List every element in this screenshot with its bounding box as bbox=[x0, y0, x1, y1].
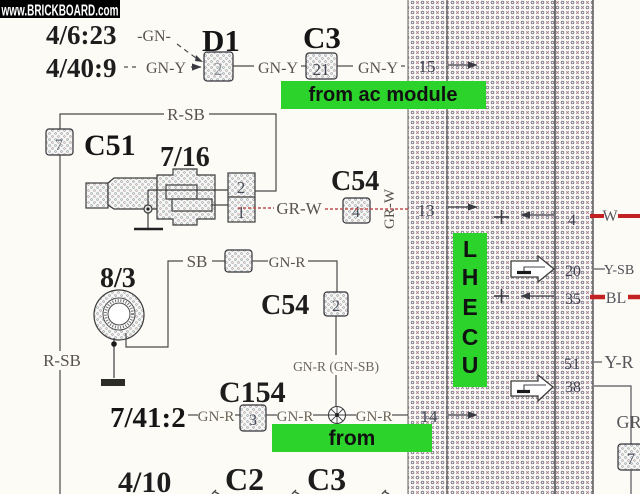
wire GN-Y dashed from 4/40:9 bbox=[124, 60, 201, 77]
svg-text:GN-R: GN-R bbox=[356, 409, 393, 425]
svg-text:7: 7 bbox=[55, 137, 63, 154]
wire GN dashed from 4/6:23 bbox=[137, 28, 203, 62]
connector C3 bbox=[306, 53, 337, 79]
wire W output bbox=[590, 208, 640, 225]
svg-text:L: L bbox=[463, 236, 477, 262]
svg-text:4/40:9: 4/40:9 bbox=[46, 53, 117, 83]
valve 7/16 body bbox=[86, 169, 228, 225]
svg-text:21: 21 bbox=[313, 60, 330, 79]
svg-text:U: U bbox=[462, 352, 479, 378]
pin block of 7/16 pins 2,1 bbox=[228, 173, 255, 222]
wire GR-W from pin 1 bbox=[238, 199, 323, 218]
arrow left row35 bbox=[521, 295, 554, 297]
wire GN-R (GN-SB) down bbox=[293, 316, 379, 407]
connector GR bottom right bbox=[618, 444, 640, 470]
svg-text:C3: C3 bbox=[307, 461, 346, 494]
svg-text:C51: C51 bbox=[84, 129, 136, 162]
wire GN-R splice to ECU bbox=[346, 409, 408, 425]
wire Y-SB output bbox=[594, 263, 634, 278]
pin 15 bbox=[419, 57, 478, 76]
connector C54 pin 4 bbox=[343, 198, 370, 223]
svg-text:4: 4 bbox=[352, 204, 360, 221]
continuation arrow row38 bbox=[511, 375, 553, 401]
svg-text:GN-R (GN-SB): GN-R (GN-SB) bbox=[293, 359, 379, 374]
pin 14 bbox=[421, 407, 478, 426]
svg-text:Y-R: Y-R bbox=[604, 352, 633, 372]
connector D1 bbox=[204, 52, 233, 81]
wire BL output bbox=[590, 290, 640, 307]
wire GN-R C154 to splice bbox=[266, 409, 328, 425]
svg-text:GN-R: GN-R bbox=[198, 409, 235, 425]
svg-text:14: 14 bbox=[421, 407, 439, 426]
wire GN-R from 7/41:2 bbox=[188, 409, 240, 425]
svg-text:from ac module: from ac module bbox=[309, 84, 458, 106]
svg-text:4/6:23: 4/6:23 bbox=[46, 20, 117, 50]
connector inline on SB wire bbox=[225, 250, 252, 272]
svg-text:7: 7 bbox=[627, 451, 635, 468]
svg-text:7/41:2: 7/41:2 bbox=[110, 402, 186, 434]
cut-off marks bottom bbox=[212, 490, 389, 494]
svg-text:GN-Y: GN-Y bbox=[358, 60, 398, 77]
arrow left row13 bbox=[521, 214, 554, 216]
svg-text:51: 51 bbox=[564, 356, 580, 373]
svg-text:from: from bbox=[329, 427, 376, 450]
svg-text:7/16: 7/16 bbox=[160, 142, 210, 173]
wire R-SB loop bbox=[60, 105, 276, 191]
svg-text:15: 15 bbox=[419, 57, 436, 76]
svg-text:C54: C54 bbox=[261, 290, 309, 321]
svg-text:35: 35 bbox=[565, 291, 581, 308]
connector C51 bbox=[46, 129, 73, 155]
horn 8/3 bbox=[94, 290, 144, 340]
wire GR-W C54 to ECU bbox=[325, 188, 408, 229]
svg-text:H: H bbox=[462, 264, 479, 290]
svg-text:8/3: 8/3 bbox=[100, 263, 136, 294]
label LH ECU bbox=[453, 233, 487, 387]
connector C154 pin 3 bbox=[240, 405, 266, 431]
svg-text:www.BRICKBOARD.com: www.BRICKBOARD.com bbox=[1, 3, 119, 20]
wire Y-R output bbox=[594, 352, 634, 372]
label from ac module bbox=[281, 81, 486, 109]
wire GR output bbox=[594, 386, 640, 444]
wire below GR connector bbox=[630, 470, 632, 494]
svg-text:GR: GR bbox=[616, 412, 640, 432]
ground lead of 7/16 bbox=[134, 213, 163, 229]
svg-text:GN-R: GN-R bbox=[277, 409, 314, 425]
terminal junction on 7/16 bbox=[144, 205, 152, 213]
svg-text:GR-W: GR-W bbox=[382, 188, 398, 229]
svg-text:SB: SB bbox=[187, 252, 208, 271]
svg-text:-GN-: -GN- bbox=[137, 28, 171, 45]
svg-text:C154: C154 bbox=[219, 376, 286, 409]
svg-text:GN-R: GN-R bbox=[269, 255, 306, 271]
svg-text:2: 2 bbox=[237, 178, 246, 197]
connector C54 pin 2 bbox=[324, 292, 348, 316]
LH ECU module band bbox=[408, 0, 593, 494]
ground lead of 8/3 bbox=[101, 338, 125, 386]
node plus row13 bbox=[494, 210, 509, 224]
svg-text:4/10: 4/10 bbox=[118, 466, 171, 494]
svg-text:38: 38 bbox=[565, 379, 581, 396]
svg-text:D1: D1 bbox=[202, 23, 240, 58]
svg-text:13: 13 bbox=[418, 201, 435, 220]
svg-text:2: 2 bbox=[332, 298, 340, 315]
svg-text:Y-SB: Y-SB bbox=[604, 263, 634, 278]
wire GN-Y D1 to C3 bbox=[233, 60, 306, 77]
brickboard banner bbox=[0, 0, 120, 20]
svg-text:R-SB: R-SB bbox=[43, 351, 81, 370]
svg-text:4: 4 bbox=[568, 212, 576, 229]
svg-text:3: 3 bbox=[249, 412, 257, 429]
svg-text:R-SB: R-SB bbox=[167, 105, 205, 124]
svg-text:W: W bbox=[602, 208, 618, 225]
svg-text:C: C bbox=[462, 324, 479, 350]
svg-text:BL: BL bbox=[606, 290, 626, 307]
svg-text:GN-Y: GN-Y bbox=[146, 60, 186, 77]
splice junction bbox=[329, 407, 346, 424]
svg-text:2: 2 bbox=[214, 59, 223, 79]
svg-text:C3: C3 bbox=[303, 20, 341, 55]
svg-text:C54: C54 bbox=[331, 166, 379, 197]
svg-text:20: 20 bbox=[565, 263, 581, 280]
svg-text:1: 1 bbox=[237, 203, 246, 222]
svg-text:GN-Y: GN-Y bbox=[258, 60, 298, 77]
node plus row35 bbox=[494, 289, 509, 303]
svg-text:GR-W: GR-W bbox=[276, 199, 322, 218]
svg-text:C2: C2 bbox=[225, 461, 264, 494]
wire R-SB down from C51 bbox=[43, 155, 81, 494]
wire SB from 8/3 bbox=[126, 252, 225, 347]
label from bbox=[272, 424, 432, 452]
wire GN-Y C3 to ECU bbox=[337, 60, 408, 77]
pin 13 bbox=[418, 201, 478, 220]
wire GN-R to C54 bbox=[252, 255, 337, 292]
continuation arrow row20 bbox=[511, 256, 554, 282]
svg-text:E: E bbox=[462, 294, 477, 320]
